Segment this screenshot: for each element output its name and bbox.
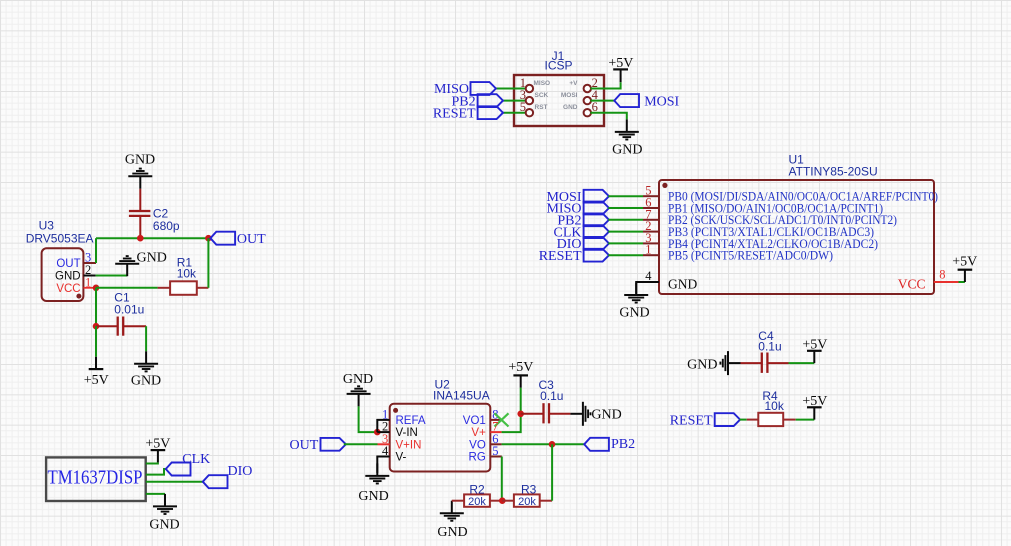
IC U2 INA145UA body — [390, 404, 491, 472]
pin 4 J1 — [584, 97, 591, 104]
ground GND at R2 — [440, 501, 464, 521]
svg-text:+5V: +5V — [608, 56, 633, 71]
svg-text:20k: 20k — [518, 496, 536, 508]
pin 6 PB1 — [643, 207, 659, 209]
pin1 marker U1 — [662, 183, 667, 188]
wire MISO — [608, 207, 643, 209]
net flag MISO U1 — [584, 202, 609, 215]
pin 2 GND U3 — [84, 275, 96, 277]
junction C1 — [93, 323, 100, 330]
net flag RESET at R4 — [715, 413, 740, 426]
pin 6 J1 — [584, 109, 591, 116]
wire RG down to R2/R3 — [501, 457, 503, 501]
svg-text:8: 8 — [939, 268, 945, 282]
svg-text:5: 5 — [492, 444, 498, 458]
capacitor C2 — [139, 216, 141, 238]
wire RESET to pin5 — [502, 112, 526, 114]
svg-text:+5V: +5V — [84, 373, 109, 388]
ground GND at TM — [153, 494, 177, 514]
svg-text:PB5 (PCINT5/RESET/ADC0/DW): PB5 (PCINT5/RESET/ADC0/DW) — [668, 249, 833, 263]
svg-text:GND: GND — [131, 374, 161, 389]
capacitor C1 — [96, 325, 118, 327]
ground GND above U2 (flipped) — [347, 386, 371, 406]
svg-text:MISO: MISO — [534, 80, 551, 87]
ground GND at C4 (rotated left) — [720, 351, 740, 375]
svg-text:10k: 10k — [765, 399, 785, 413]
pin 5 J1 — [526, 109, 533, 116]
wire pin4 to GND — [636, 282, 659, 294]
net flag DIO U1 — [584, 237, 609, 250]
svg-text:V-: V- — [396, 452, 407, 464]
power +5V at C4 — [807, 351, 822, 363]
svg-text:+5V: +5V — [802, 337, 827, 352]
ground GND below C1 — [134, 351, 158, 371]
svg-text:TM1637DISP: TM1637DISP — [48, 468, 143, 489]
svg-text:+5V: +5V — [952, 254, 977, 269]
ground GND inner (flipped) — [115, 256, 139, 276]
svg-text:MOSI: MOSI — [561, 92, 578, 99]
pin 3 OUT U3 — [84, 262, 97, 264]
svg-text:RESET: RESET — [433, 106, 476, 121]
junction REFA/V-IN — [374, 429, 381, 436]
wire PB2 — [608, 219, 643, 221]
display TM1637DISP body — [46, 457, 146, 501]
net flag OUT — [210, 232, 235, 245]
svg-text:0.01u: 0.01u — [114, 303, 144, 317]
wire pin1 to +5V — [95, 326, 97, 357]
svg-text:R2: R2 — [469, 482, 485, 496]
pin 3 J1 — [526, 97, 533, 104]
svg-text:5: 5 — [520, 100, 526, 114]
svg-text:VCC: VCC — [56, 283, 80, 295]
resistor R1 — [158, 287, 171, 289]
net flag MISO — [471, 82, 496, 95]
wire VO to PB2 — [502, 443, 585, 445]
net flag PB2 — [478, 94, 503, 107]
svg-text:OUT: OUT — [56, 258, 80, 270]
power +5V U1 — [958, 270, 973, 282]
svg-text:VO: VO — [469, 439, 486, 451]
svg-text:GND: GND — [137, 251, 167, 266]
wire CLK — [608, 231, 643, 233]
wire OUT to V+IN — [344, 443, 378, 445]
svg-text:CLK: CLK — [182, 452, 210, 467]
wire V+ to +5V junction — [502, 414, 521, 432]
junction C2/top net — [137, 235, 144, 242]
svg-text:RESET: RESET — [670, 413, 713, 428]
power +5V J1 — [620, 69, 622, 82]
net flag RESET U1 — [584, 249, 609, 262]
svg-text:MOSI: MOSI — [644, 94, 679, 109]
wire VCC to +5V — [959, 281, 965, 283]
svg-text:V+: V+ — [471, 427, 486, 439]
svg-text:VCC: VCC — [898, 277, 926, 292]
ground GND U1 — [624, 283, 648, 303]
ground GND above C2 (flipped) — [128, 169, 152, 189]
wire R3 up to VO — [551, 444, 553, 500]
svg-text:OUT: OUT — [237, 232, 266, 247]
svg-text:GND: GND — [619, 305, 649, 320]
junction V+/C3 — [517, 411, 524, 418]
pin 7 V+ — [490, 431, 501, 433]
pin3 stub — [378, 443, 390, 445]
wire pin1 down — [95, 288, 97, 326]
net flag PB2 U1 — [584, 213, 609, 226]
svg-text:V+IN: V+IN — [396, 439, 422, 451]
svg-text:R3: R3 — [521, 482, 537, 496]
svg-text:INA145UA: INA145UA — [433, 389, 490, 403]
svg-text:GND: GND — [358, 489, 388, 504]
pin 8 VO1 — [490, 419, 501, 421]
svg-text:PB2: PB2 — [611, 437, 635, 452]
no-connect X pin8 — [495, 413, 509, 426]
net flag RESET — [478, 106, 503, 119]
wire TM to GND — [146, 493, 165, 495]
svg-text:GND: GND — [125, 152, 155, 167]
pin 1 VCC U3 — [84, 287, 97, 289]
wire TM to DIO — [146, 481, 203, 483]
svg-text:V-IN: V-IN — [396, 427, 418, 439]
wire MISO to pin1 — [496, 88, 526, 90]
wire R4 to +5V — [796, 419, 815, 421]
pin 2 PB3 — [643, 231, 659, 233]
wire pin6 to GND — [590, 113, 626, 120]
wire RESET — [608, 254, 643, 256]
power +5V at U2 — [513, 375, 528, 387]
wire C1 to GND — [145, 326, 147, 351]
pin 6 VO — [490, 443, 501, 445]
capacitor C3 — [521, 413, 544, 415]
svg-text:1: 1 — [645, 243, 651, 257]
IC U1 ATTINY85-20SU body — [659, 180, 934, 294]
wire TM to CLK — [146, 469, 166, 475]
wire GND down to V-IN — [359, 406, 378, 432]
ground GND at C3 (rotated right) — [570, 402, 590, 426]
resistor R3 — [502, 500, 514, 502]
capacitor C4 — [741, 362, 762, 364]
svg-text:0.1u: 0.1u — [758, 340, 781, 354]
net flag OUT at U2 — [321, 438, 346, 451]
svg-text:+V: +V — [569, 80, 578, 87]
wire MOSI — [608, 195, 643, 197]
wire C4 to +5V — [789, 362, 815, 364]
svg-text:+5V: +5V — [145, 436, 170, 451]
svg-text:RESET: RESET — [539, 249, 582, 264]
wire junction to +5V — [520, 388, 522, 414]
wire RESET to R4 — [740, 419, 747, 421]
ground GND below V- — [365, 463, 389, 483]
svg-text:ICSP: ICSP — [544, 59, 572, 73]
junction R2/R3/RG — [499, 497, 506, 504]
pin1 marker U2 — [393, 408, 398, 413]
power +5V at TM — [151, 450, 166, 462]
svg-text:DIO: DIO — [228, 464, 253, 479]
svg-text:20k: 20k — [468, 496, 486, 508]
power +5V below U3 (flipped) — [89, 357, 104, 369]
wire pin2 to inner GND — [96, 275, 128, 277]
wire pin1 to R1 — [96, 287, 158, 289]
net flag CLK — [166, 463, 191, 476]
svg-text:10k: 10k — [177, 267, 197, 281]
svg-text:680p: 680p — [153, 219, 180, 233]
junction OUT net — [205, 235, 212, 242]
net flag PB2 at U2 — [584, 438, 609, 451]
resistor R4 — [747, 419, 759, 421]
svg-text:DRV5053EA: DRV5053EA — [26, 231, 94, 245]
svg-text:OUT: OUT — [290, 438, 319, 453]
wire DIO — [608, 242, 643, 244]
pin 1 J1 — [526, 85, 533, 92]
svg-text:+5V: +5V — [508, 360, 533, 375]
ground GND J1 — [615, 119, 639, 139]
resistor R2 — [452, 500, 464, 502]
wire pin3 up — [95, 238, 97, 263]
svg-text:ATTINY85-20SU: ATTINY85-20SU — [789, 165, 878, 179]
pin 3 PB4 — [643, 242, 659, 244]
svg-text:U3: U3 — [39, 219, 55, 233]
wire pin2 to +5V — [590, 82, 620, 88]
svg-text:RST: RST — [535, 104, 548, 111]
wire TM to +5V — [146, 462, 158, 463]
pin 7 PB2 — [643, 219, 659, 221]
svg-text:GND: GND — [149, 517, 179, 532]
svg-text:GND: GND — [668, 277, 697, 292]
svg-text:GND: GND — [591, 408, 621, 423]
svg-text:RG: RG — [469, 452, 486, 464]
junction pin1 — [93, 285, 100, 292]
svg-text:VO1: VO1 — [463, 415, 486, 427]
wire pin4 to MOSI — [590, 100, 614, 102]
wire PB2 to pin3 — [502, 100, 526, 102]
wire V- to GND — [377, 457, 389, 473]
pin 1 PB5 — [643, 254, 659, 256]
svg-text:SCK: SCK — [535, 92, 549, 99]
svg-text:GND: GND — [343, 372, 373, 387]
pin 5 PB0 — [643, 195, 659, 197]
svg-text:REFA: REFA — [396, 415, 426, 427]
svg-text:GND: GND — [55, 270, 81, 282]
svg-text:GND: GND — [563, 104, 578, 111]
net flag CLK U1 — [584, 225, 609, 238]
svg-text:GND: GND — [687, 357, 717, 372]
wire R1 to OUT net — [207, 238, 209, 288]
svg-text:+5V: +5V — [802, 394, 827, 409]
svg-text:1: 1 — [85, 275, 91, 289]
IC U3 DRV5053EA body — [42, 248, 84, 301]
junction VO/R3 — [549, 441, 556, 448]
net flag DIO — [203, 475, 228, 488]
connector J1 ICSP body — [514, 75, 604, 126]
pin1 marker U3 — [76, 294, 81, 299]
svg-text:GND: GND — [437, 525, 467, 540]
power +5V at R4 — [807, 407, 822, 419]
wire V-IN stub — [377, 431, 389, 433]
svg-text:4: 4 — [645, 269, 652, 283]
pin 5 RG — [490, 456, 502, 458]
net flag MOSI — [614, 94, 639, 107]
net flag MOSI U1 — [584, 190, 609, 203]
svg-text:0.1u: 0.1u — [540, 389, 563, 403]
pin 2 J1 — [584, 85, 591, 92]
wire top net to OUT — [96, 237, 208, 239]
svg-text:GND: GND — [612, 142, 642, 157]
wire REFA tie — [377, 420, 389, 432]
